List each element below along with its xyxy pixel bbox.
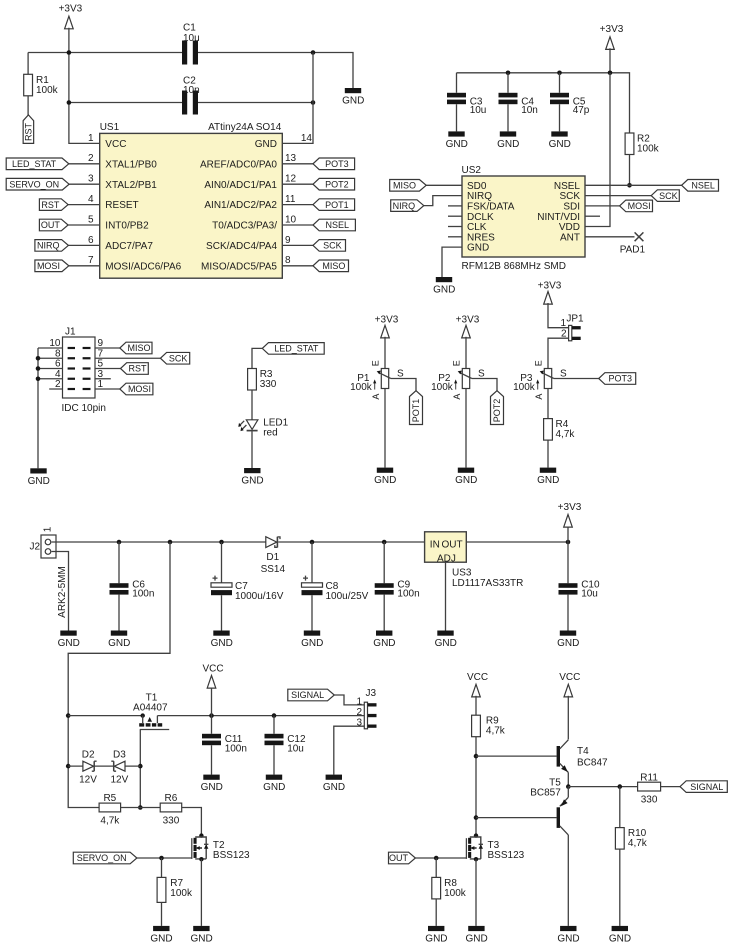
wire (stub) bbox=[95, 378, 111, 380]
node junction bbox=[168, 540, 173, 545]
wire bbox=[619, 849, 621, 926]
svg-text:GND: GND bbox=[467, 243, 489, 254]
svg-text:VCC: VCC bbox=[559, 672, 580, 683]
svg-text:XTAL2/PB1: XTAL2/PB1 bbox=[105, 180, 157, 191]
svg-text:C1: C1 bbox=[183, 23, 196, 34]
wire bbox=[465, 337, 467, 369]
svg-text:9: 9 bbox=[285, 235, 291, 246]
wire bbox=[69, 28, 100, 144]
node SERVO_ON tag bbox=[6, 178, 69, 190]
ground (P2) bbox=[455, 468, 477, 487]
node junction bbox=[272, 713, 277, 718]
wire bbox=[282, 265, 313, 267]
wire bbox=[476, 755, 557, 757]
resistor R7 bbox=[157, 877, 166, 902]
svg-text:10u: 10u bbox=[287, 743, 304, 754]
wire bbox=[442, 247, 462, 277]
ground bbox=[446, 131, 468, 150]
node RST tag bbox=[39, 199, 68, 211]
svg-text:SCK: SCK bbox=[659, 191, 678, 201]
svg-text:GND: GND bbox=[455, 475, 477, 486]
wire bbox=[384, 337, 386, 369]
svg-text:GND: GND bbox=[28, 476, 50, 487]
ground (J2) bbox=[58, 631, 80, 650]
svg-text:12V: 12V bbox=[111, 775, 129, 786]
ground (T3) bbox=[465, 926, 487, 945]
resistor R4 bbox=[544, 419, 553, 441]
wire (stub) bbox=[448, 215, 462, 217]
power +3V3 (P1) bbox=[381, 325, 390, 338]
wire bbox=[424, 196, 462, 206]
svg-text:PAD1: PAD1 bbox=[620, 245, 646, 256]
svg-text:100k: 100k bbox=[36, 85, 59, 96]
svg-text:100k: 100k bbox=[431, 382, 454, 393]
diode D3 (zener 12V) bbox=[114, 761, 125, 771]
transistor T4 (BC847) bbox=[557, 746, 560, 767]
svg-text:A: A bbox=[371, 394, 381, 400]
wire bbox=[252, 348, 262, 368]
wire bbox=[629, 155, 631, 186]
svg-text:4,7k: 4,7k bbox=[628, 838, 648, 849]
svg-text:MOSI: MOSI bbox=[37, 261, 60, 271]
wire bbox=[121, 807, 161, 809]
svg-text:330: 330 bbox=[163, 816, 180, 827]
op-amp U3 (regulator US3 LD1117) bbox=[425, 532, 467, 562]
node POT3 tag bbox=[313, 158, 355, 170]
svg-text:IDC 10pin: IDC 10pin bbox=[62, 403, 106, 414]
ground (R7) bbox=[150, 926, 172, 945]
svg-text:T0/ADC3/PA3/: T0/ADC3/PA3/ bbox=[212, 221, 277, 232]
wire bbox=[161, 902, 163, 926]
wire bbox=[311, 542, 313, 631]
wire bbox=[554, 378, 599, 380]
node NSEL tag (US2) bbox=[682, 180, 719, 192]
svg-text:GND: GND bbox=[374, 475, 396, 486]
node junction bbox=[209, 713, 214, 718]
resistor R8 bbox=[432, 877, 441, 899]
node junction bbox=[382, 540, 387, 545]
wire bbox=[69, 163, 100, 165]
svg-text:100n: 100n bbox=[225, 743, 247, 754]
svg-text:ADC7/PA7: ADC7/PA7 bbox=[105, 241, 153, 252]
svg-text:IN: IN bbox=[430, 540, 440, 551]
svg-text:LED_STAT: LED_STAT bbox=[12, 159, 57, 169]
svg-text:POT3: POT3 bbox=[325, 159, 349, 169]
svg-text:RST: RST bbox=[41, 200, 60, 210]
transistor T3 (BSS123) bbox=[466, 833, 524, 861]
svg-text:GND: GND bbox=[537, 475, 559, 486]
node POT3 tag (P3) bbox=[599, 373, 636, 385]
power +3V3 (P3) bbox=[544, 292, 553, 305]
wire bbox=[118, 542, 120, 631]
wire bbox=[391, 379, 416, 391]
node PAD1 bbox=[635, 232, 644, 241]
node junction bbox=[618, 784, 623, 789]
svg-text:8: 8 bbox=[285, 255, 291, 266]
svg-text:S: S bbox=[397, 368, 404, 379]
node POT2 tag bbox=[313, 178, 355, 190]
svg-text:330: 330 bbox=[260, 379, 277, 390]
node junction bbox=[557, 71, 562, 76]
node junction bbox=[474, 754, 479, 759]
node NIRQ tag bbox=[35, 240, 69, 252]
resistor R1 bbox=[24, 74, 33, 96]
svg-text:OUT: OUT bbox=[389, 853, 409, 863]
wire bbox=[251, 431, 253, 468]
node SCK tag (J1) bbox=[160, 352, 189, 364]
svg-text:AREF/ADC0/PA0: AREF/ADC0/PA0 bbox=[200, 159, 277, 170]
transistor T1 (A04407) bbox=[141, 713, 145, 717]
svg-text:4,7k: 4,7k bbox=[100, 816, 120, 827]
node SERVO_ON tag (T2) bbox=[73, 852, 137, 864]
svg-text:1: 1 bbox=[88, 133, 94, 144]
svg-text:10u: 10u bbox=[183, 33, 200, 44]
svg-text:GND: GND bbox=[557, 638, 579, 649]
jumper JP1 bbox=[569, 325, 572, 340]
node junction bbox=[627, 183, 632, 188]
svg-text:BSS123: BSS123 bbox=[213, 850, 250, 861]
svg-text:GND: GND bbox=[557, 934, 579, 945]
wire bbox=[28, 53, 353, 89]
ground (US2) bbox=[433, 277, 455, 296]
wire bbox=[619, 787, 621, 828]
node junction bbox=[138, 805, 143, 810]
svg-text:GND: GND bbox=[241, 476, 263, 487]
wire bbox=[282, 204, 313, 206]
wire bbox=[282, 163, 313, 165]
capacitor C4 bbox=[499, 93, 518, 98]
ground (US3) bbox=[435, 631, 457, 650]
wire bbox=[68, 204, 100, 206]
ground (R8) bbox=[425, 926, 447, 945]
capacitor C5 bbox=[550, 93, 569, 98]
svg-text:MISO: MISO bbox=[322, 261, 345, 271]
svg-text:GND: GND bbox=[301, 638, 323, 649]
svg-text:red: red bbox=[263, 427, 277, 438]
wire bbox=[475, 737, 477, 836]
wire bbox=[465, 389, 467, 468]
svg-text:10u: 10u bbox=[470, 105, 487, 116]
ground (R10) bbox=[609, 926, 631, 945]
wire bbox=[69, 102, 313, 104]
wire bbox=[567, 527, 569, 630]
wire bbox=[95, 357, 160, 359]
op-amp U1 (IC US1 ATtiny24A) bbox=[88, 122, 312, 278]
svg-text:J3: J3 bbox=[366, 688, 377, 699]
svg-text:+3V3: +3V3 bbox=[456, 314, 480, 325]
svg-text:GND: GND bbox=[263, 782, 285, 793]
svg-text:GND: GND bbox=[425, 934, 447, 945]
node SIGNAL tag (R11) bbox=[680, 781, 727, 793]
ground (P1) bbox=[374, 468, 396, 487]
svg-text:LED_STAT: LED_STAT bbox=[274, 344, 319, 354]
svg-text:XTAL1/PB0: XTAL1/PB0 bbox=[105, 159, 157, 170]
svg-text:100k: 100k bbox=[170, 888, 193, 899]
wire bbox=[282, 244, 313, 246]
resistor R5 bbox=[99, 803, 121, 812]
wire bbox=[68, 244, 99, 246]
svg-text:1000u/16V: 1000u/16V bbox=[235, 591, 284, 602]
connector J1 (IDC 10pin) bbox=[49, 327, 106, 415]
diode D1 bbox=[266, 537, 277, 548]
node LED_STAT tag bbox=[6, 158, 69, 170]
wire bbox=[95, 388, 120, 390]
wire bbox=[282, 53, 313, 144]
wire bbox=[68, 542, 170, 808]
wire bbox=[200, 859, 202, 926]
svg-text:GND: GND bbox=[435, 638, 457, 649]
node junction bbox=[434, 856, 439, 861]
wire bbox=[68, 765, 140, 767]
svg-text:AIN1/ADC2/PA2: AIN1/ADC2/PA2 bbox=[204, 200, 277, 211]
svg-text:RST: RST bbox=[129, 364, 148, 374]
svg-text:MOSI: MOSI bbox=[128, 384, 151, 394]
power +3V3 (P2) bbox=[462, 325, 471, 338]
svg-text:SS14: SS14 bbox=[261, 564, 286, 575]
ground (T5) bbox=[557, 926, 579, 945]
wire bbox=[251, 390, 253, 420]
node POT1 tag bbox=[313, 199, 355, 211]
capacitor C8 bbox=[302, 583, 323, 587]
transistor T5 (BC857) bbox=[557, 807, 560, 828]
svg-text:10n: 10n bbox=[521, 105, 538, 116]
node junction bbox=[311, 50, 316, 55]
node junction bbox=[36, 356, 41, 361]
ground (C9) bbox=[373, 631, 395, 650]
node NIRQ tag (US2) bbox=[391, 200, 424, 212]
svg-text:+3V3: +3V3 bbox=[375, 314, 399, 325]
ground (C7) bbox=[211, 631, 233, 650]
node RST tag (vertical) bbox=[23, 115, 34, 143]
svg-text:E: E bbox=[451, 360, 461, 366]
node junction bbox=[506, 71, 511, 76]
svg-text:4: 4 bbox=[88, 194, 94, 205]
svg-text:GND: GND bbox=[201, 782, 223, 793]
wire bbox=[567, 787, 569, 798]
node OUT tag bbox=[39, 219, 68, 231]
svg-text:+3V3: +3V3 bbox=[558, 502, 582, 513]
transistor U2 (IC US2 RFM12B) bbox=[462, 165, 586, 272]
connector J3 bbox=[364, 702, 367, 729]
svg-text:OUT: OUT bbox=[441, 540, 462, 551]
wire bbox=[157, 715, 364, 717]
svg-text:10n: 10n bbox=[183, 85, 200, 96]
svg-text:7: 7 bbox=[88, 255, 94, 266]
capacitor C1 bbox=[182, 41, 187, 65]
wire bbox=[37, 348, 39, 468]
svg-text:POT1: POT1 bbox=[411, 399, 421, 423]
svg-text:RST: RST bbox=[24, 123, 34, 142]
wire bbox=[282, 183, 313, 185]
svg-text:100u/25V: 100u/25V bbox=[326, 591, 369, 602]
svg-text:11: 11 bbox=[285, 194, 296, 205]
svg-text:GND: GND bbox=[342, 96, 364, 107]
wire bbox=[567, 696, 569, 740]
node junction bbox=[117, 540, 122, 545]
svg-text:T4: T4 bbox=[577, 746, 589, 757]
svg-text:R6: R6 bbox=[165, 793, 178, 804]
wire bbox=[68, 224, 100, 226]
node RST tag (J1) bbox=[121, 363, 149, 375]
svg-text:SCK: SCK bbox=[169, 353, 188, 363]
wire bbox=[435, 858, 437, 877]
connector J2 bbox=[41, 535, 56, 558]
wire bbox=[547, 440, 549, 468]
node SIGNAL tag (J3) bbox=[288, 689, 335, 701]
svg-text:NSEL: NSEL bbox=[691, 181, 715, 191]
wire (stub) bbox=[448, 205, 462, 207]
svg-text:GND: GND bbox=[465, 934, 487, 945]
ground bbox=[497, 131, 519, 150]
wire bbox=[567, 772, 569, 786]
capacitor C10 bbox=[559, 583, 578, 588]
transistor T2 (BSS123) bbox=[192, 833, 250, 861]
node junction bbox=[67, 100, 72, 105]
svg-text:4,7k: 4,7k bbox=[556, 429, 576, 440]
node SCK tag bbox=[313, 240, 346, 252]
svg-text:BSS123: BSS123 bbox=[488, 850, 525, 861]
svg-text:+3V3: +3V3 bbox=[600, 24, 624, 35]
power VCC (T1/C11) bbox=[207, 676, 216, 689]
svg-text:SERVO_ON: SERVO_ON bbox=[77, 853, 127, 863]
svg-text:GND: GND bbox=[58, 638, 80, 649]
node NSEL tag bbox=[313, 219, 355, 231]
svg-text:14: 14 bbox=[301, 133, 313, 144]
svg-text:+3V3: +3V3 bbox=[59, 3, 83, 14]
node MISO tag (J1) bbox=[120, 342, 152, 354]
wire bbox=[457, 48, 630, 133]
node POT2 tag bbox=[491, 391, 504, 425]
wire bbox=[334, 695, 364, 705]
svg-text:4,7k: 4,7k bbox=[486, 726, 506, 737]
ground (C8) bbox=[301, 631, 323, 650]
svg-text:US2: US2 bbox=[462, 165, 482, 176]
node junction bbox=[219, 540, 224, 545]
wire (stub) bbox=[448, 236, 462, 238]
wire bbox=[547, 389, 549, 419]
svg-text:NIRQ: NIRQ bbox=[393, 201, 416, 211]
node MISO tag bbox=[313, 260, 349, 272]
node OUT tag (T3) bbox=[389, 852, 416, 864]
svg-text:GND: GND bbox=[255, 139, 277, 150]
diode D2 (zener 12V) bbox=[83, 761, 94, 771]
node junction bbox=[474, 815, 479, 820]
svg-text:GND: GND bbox=[609, 934, 631, 945]
wire bbox=[161, 858, 163, 877]
resistor R6 bbox=[160, 803, 182, 812]
wire bbox=[568, 786, 637, 788]
svg-text:13: 13 bbox=[285, 153, 297, 164]
wire bbox=[472, 379, 497, 391]
node junction bbox=[36, 376, 41, 381]
ground (C12) bbox=[263, 775, 285, 794]
wire bbox=[435, 899, 437, 926]
wire bbox=[585, 184, 682, 186]
wire bbox=[585, 73, 610, 227]
capacitor C7 bbox=[211, 583, 232, 587]
svg-text:GND: GND bbox=[433, 285, 455, 296]
wire bbox=[139, 730, 141, 808]
svg-text:A04407: A04407 bbox=[133, 703, 168, 714]
wire bbox=[548, 338, 569, 368]
wire bbox=[334, 726, 365, 774]
svg-text:R11: R11 bbox=[640, 772, 658, 783]
power +3V3 (LDO out) bbox=[564, 515, 573, 528]
svg-text:+3V3: +3V3 bbox=[538, 280, 562, 291]
svg-text:E: E bbox=[533, 360, 543, 366]
svg-text:BC857: BC857 bbox=[530, 788, 561, 799]
wire bbox=[415, 857, 466, 859]
svg-text:OUT: OUT bbox=[41, 220, 61, 230]
power VCC (T4) bbox=[564, 684, 573, 697]
svg-text:ADJ: ADJ bbox=[437, 553, 456, 564]
svg-text:ATtiny24A SO14: ATtiny24A SO14 bbox=[208, 122, 282, 133]
svg-text:GND: GND bbox=[190, 934, 212, 945]
wire bbox=[27, 96, 29, 115]
node junction bbox=[67, 50, 72, 55]
svg-text:POT2: POT2 bbox=[492, 399, 502, 423]
svg-text:JP1: JP1 bbox=[566, 314, 584, 325]
wire bbox=[476, 817, 557, 819]
resistor R10 bbox=[615, 828, 624, 850]
wire bbox=[475, 696, 477, 715]
wire (stub) bbox=[448, 226, 462, 228]
wire bbox=[69, 265, 100, 267]
node MOSI tag (J1) bbox=[120, 383, 153, 395]
ground bbox=[549, 131, 571, 150]
svg-text:S: S bbox=[560, 368, 567, 379]
svg-text:POT3: POT3 bbox=[609, 374, 633, 384]
node junction bbox=[608, 71, 613, 76]
node SCK tag (US2) bbox=[651, 190, 679, 202]
svg-text:RFM12B 868MHz SMD: RFM12B 868MHz SMD bbox=[462, 261, 566, 272]
svg-text:2: 2 bbox=[356, 707, 362, 718]
svg-text:POT2: POT2 bbox=[325, 179, 349, 189]
svg-text:10: 10 bbox=[285, 214, 297, 225]
svg-text:SIGNAL: SIGNAL bbox=[690, 782, 723, 792]
node junction bbox=[311, 100, 316, 105]
svg-text:VCC: VCC bbox=[467, 672, 488, 683]
ground (J1) bbox=[28, 468, 50, 487]
svg-text:GND: GND bbox=[150, 934, 172, 945]
svg-text:100k: 100k bbox=[637, 144, 660, 155]
wire bbox=[38, 348, 63, 389]
ground (C10) bbox=[557, 631, 579, 650]
node junction bbox=[66, 764, 71, 769]
svg-text:LD1117AS33TR: LD1117AS33TR bbox=[452, 578, 523, 589]
svg-text:A: A bbox=[452, 394, 462, 400]
svg-text:D1: D1 bbox=[266, 552, 279, 563]
svg-text:12: 12 bbox=[285, 174, 297, 185]
node junction bbox=[159, 856, 164, 861]
node MOSI tag (US2) bbox=[620, 200, 653, 212]
svg-text:SCK/ADC4/PA4: SCK/ADC4/PA4 bbox=[206, 241, 277, 252]
svg-text:5: 5 bbox=[88, 214, 94, 225]
wire bbox=[475, 859, 477, 926]
svg-text:100n: 100n bbox=[397, 589, 419, 600]
svg-text:1: 1 bbox=[356, 696, 362, 707]
wire bbox=[661, 786, 680, 788]
svg-text:MISO/ADC5/PA5: MISO/ADC5/PA5 bbox=[201, 261, 277, 272]
svg-text:1: 1 bbox=[43, 526, 54, 532]
node MOSI tag bbox=[35, 260, 69, 272]
wire bbox=[52, 541, 266, 543]
wire bbox=[221, 542, 223, 631]
wire bbox=[68, 715, 143, 717]
node LED_STAT tag (LED) bbox=[262, 343, 324, 355]
wire bbox=[137, 857, 192, 859]
power +3V3 (top right) bbox=[606, 37, 615, 50]
